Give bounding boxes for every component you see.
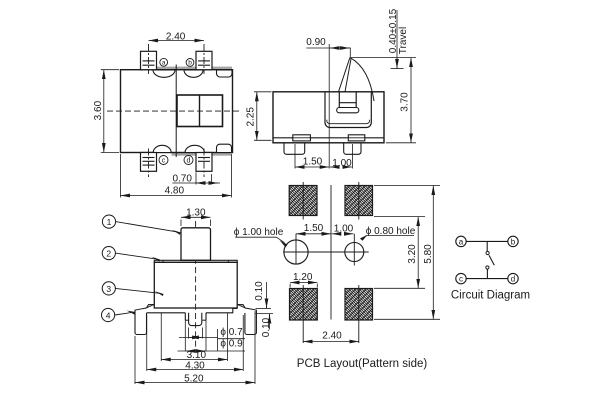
svg-text:c: c (459, 275, 463, 284)
dimension 1.50 / 1.00 (pcb) (296, 233, 331, 235)
travel dimension (396, 10, 398, 68)
base rail line (273, 137, 384, 139)
terminal c (456, 273, 466, 283)
bracket bump left (146, 304, 154, 308)
terminal d (508, 273, 518, 283)
wire a-b (466, 240, 508, 242)
dimension 2.40 (pcb) (303, 341, 359, 343)
svg-text:5.20: 5.20 (184, 373, 204, 384)
foot centerline right (352, 144, 354, 169)
svg-text:3: 3 (106, 284, 111, 294)
svg-text:3.20: 3.20 (407, 244, 418, 264)
pad centerline top-right (358, 182, 360, 220)
plunger stem (339, 92, 356, 108)
terminal foot right (344, 143, 361, 155)
dimension 3.60 (left) (101, 69, 119, 71)
circled terminal b (186, 59, 194, 67)
top edge dimple left (153, 70, 175, 77)
inner cover box (325, 92, 371, 128)
svg-text:2.40: 2.40 (166, 31, 186, 42)
dimension 3.10 (160, 313, 162, 361)
pad centerline bottom-left (302, 285, 304, 343)
svg-text:2.40: 2.40 (322, 331, 342, 342)
terminal a (456, 236, 466, 246)
hole phi 0.80 (345, 243, 364, 262)
svg-text:0.10: 0.10 (254, 281, 265, 301)
button window inner rect (177, 95, 223, 127)
center boss tip (189, 313, 202, 326)
svg-text:4.30: 4.30 (185, 361, 205, 372)
pad centerline top-left (302, 182, 304, 220)
horizontal dashed centerline (107, 110, 240, 112)
terminal pad bottom-left (141, 153, 157, 172)
cover flange strip (154, 260, 237, 262)
top edge dimple right (184, 70, 203, 77)
button window divider (199, 95, 201, 127)
dimension 5.80 (374, 185, 440, 187)
dimension 2.25 (254, 91, 272, 93)
gray cover edge shading top (157, 67, 233, 70)
stub from a-b wire (486, 241, 488, 251)
svg-text:Circuit Diagram: Circuit Diagram (451, 290, 530, 302)
hole phi 1.00 (284, 240, 308, 264)
push button (181, 228, 211, 261)
svg-text:4.80: 4.80 (165, 186, 185, 197)
switch lever (489, 255, 494, 265)
pad centerline bottom-right (358, 285, 360, 343)
svg-text:0.70: 0.70 (172, 174, 192, 185)
base plate bottom right segment (206, 308, 237, 312)
dimension phi 0.7 (188, 328, 190, 339)
lower contact (486, 266, 489, 269)
circled terminal d (184, 156, 193, 165)
dimension 0.10 lower (256, 313, 274, 315)
svg-text:2: 2 (106, 249, 111, 259)
svg-text:1.00: 1.00 (332, 158, 352, 169)
svg-text:ϕ 0.9: ϕ 0.9 (220, 339, 243, 350)
upper contact (486, 251, 489, 254)
svg-text:3.70: 3.70 (399, 92, 410, 112)
bracket foot right (245, 310, 257, 335)
pad centerline top-right (203, 44, 205, 74)
dimension 0.70 (195, 172, 197, 184)
svg-text:d: d (187, 158, 191, 165)
dimension 4.30 (146, 315, 148, 371)
pad centerline top-left (148, 44, 150, 74)
svg-text:d: d (511, 275, 515, 284)
svg-text:ϕ 0.7: ϕ 0.7 (220, 327, 243, 338)
bottom edge dimple left (153, 145, 171, 152)
callout 3 (102, 282, 115, 295)
bracket ledge left (135, 308, 146, 310)
foot centerline left (294, 144, 296, 169)
svg-text:ϕ 1.00 hole: ϕ 1.00 hole (234, 227, 284, 238)
svg-text:3.60: 3.60 (93, 100, 104, 120)
svg-text:Travel: Travel (398, 27, 409, 54)
callout 1 (102, 215, 115, 228)
solder pad bottom-right (345, 289, 373, 321)
mounting tab left (293, 135, 311, 141)
terminal pad top-right (196, 51, 212, 69)
svg-text:1: 1 (107, 217, 112, 227)
bottom edge dimple right (185, 145, 204, 152)
svg-text:3.10: 3.10 (187, 350, 207, 361)
bracket bump right (237, 304, 245, 308)
svg-text:1.00: 1.00 (334, 224, 354, 235)
base plate bottom left segment (147, 312, 186, 314)
dimension 3.20 (374, 216, 425, 218)
svg-text:b: b (511, 237, 516, 246)
cover divider line (175, 65, 177, 158)
dimension 1.50 / 1.00 (295, 166, 329, 168)
wire c-d (466, 278, 508, 280)
circled terminal c (159, 156, 168, 165)
vertical centerline (330, 185, 332, 320)
solder pad top-right (345, 186, 373, 216)
terminal foot left (284, 143, 305, 155)
center boss outer (185, 313, 206, 320)
svg-text:1.20: 1.20 (293, 272, 313, 283)
dimension 2.40 (top) (149, 40, 205, 42)
circled terminal a (160, 58, 168, 66)
button tip extension line (350, 57, 416, 59)
stub to c-d wire (486, 269, 488, 278)
svg-text:2.25: 2.25 (245, 107, 256, 127)
top right corner tab (217, 70, 233, 77)
svg-text:1.50: 1.50 (304, 223, 324, 234)
tilted plunger outline right (345, 58, 351, 92)
svg-text:1.50: 1.50 (303, 157, 323, 168)
dimension phi 0.9 (184, 320, 186, 351)
inner cover flange line (327, 120, 370, 124)
svg-text:5.80: 5.80 (423, 244, 434, 264)
plunger rounded foot (337, 108, 359, 113)
bottom right corner tab (217, 144, 232, 152)
dimension 3.70 (386, 142, 416, 144)
solder pad bottom-left (290, 289, 318, 321)
svg-text:b: b (188, 60, 192, 67)
svg-text:a: a (162, 60, 166, 67)
gray cover edge shading bottom (172, 153, 232, 156)
svg-text:0.10: 0.10 (261, 317, 272, 337)
svg-text:1.30: 1.30 (186, 208, 206, 219)
travel arc (350, 58, 374, 101)
bracket ledge right (245, 308, 256, 310)
svg-text:PCB Layout(Pattern side): PCB Layout(Pattern side) (297, 358, 428, 370)
callout 4 (102, 308, 115, 321)
dimension 1.30 (180, 220, 182, 227)
pad centerline bottom-right (203, 149, 205, 178)
solder pad top-left (289, 186, 317, 216)
top view body (121, 70, 233, 153)
svg-text:a: a (459, 237, 464, 246)
side view body (273, 92, 384, 143)
dimension 5.20 (134, 336, 136, 384)
switch body (154, 262, 237, 308)
svg-text:0.90: 0.90 (306, 37, 326, 48)
svg-text:c: c (162, 158, 166, 165)
terminal pad top-left (141, 51, 157, 69)
terminal pad bottom-right (196, 153, 212, 172)
dimension 0.90 (349, 48, 351, 58)
vertical dashed centerline (195, 221, 197, 350)
mounting tab right (348, 135, 365, 141)
terminal b (508, 236, 518, 246)
dimension 0.10 upper (256, 307, 272, 309)
dimension 4.80 (120, 154, 122, 198)
tilted plunger outline left (339, 58, 350, 92)
vertical centerline (328, 44, 330, 169)
bracket foot left (135, 310, 147, 335)
svg-text:4: 4 (106, 310, 111, 320)
pad centerline bottom-left (148, 149, 150, 178)
callout 2 (102, 247, 115, 260)
dimension 1.20 (289, 284, 291, 288)
horizontal centerline through holes (283, 251, 369, 253)
